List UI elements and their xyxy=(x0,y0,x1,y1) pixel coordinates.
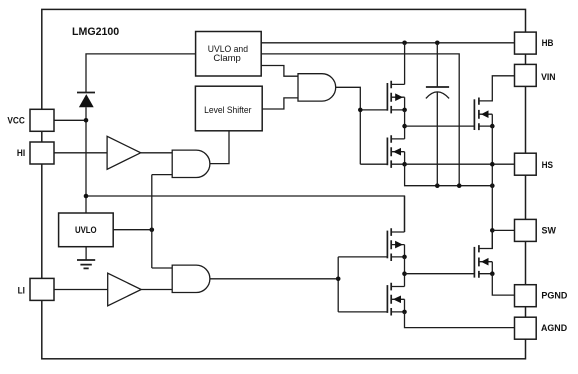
wire SW pin xyxy=(492,229,514,231)
svg-text:HB: HB xyxy=(542,38,554,49)
pin VCC xyxy=(7,109,54,131)
node VCC-diode junction xyxy=(84,118,89,123)
buffer A2 (LI) xyxy=(108,273,142,306)
transistor Q4 (low-side driver NMOS) xyxy=(387,257,406,316)
transistor Q3 (low-side driver PMOS) xyxy=(387,196,406,261)
svg-text:LI: LI xyxy=(18,285,25,296)
svg-text:VCC: VCC xyxy=(7,115,25,126)
capacitor C1 bootstrap xyxy=(426,43,449,186)
wire UVLO-Clamp out1 HB rail xyxy=(261,42,514,44)
wire U2 output to Level Shifter xyxy=(210,131,229,164)
svg-text:HI: HI xyxy=(17,148,25,159)
wire buffer A1 to AND U2 xyxy=(141,152,173,154)
label LMG2100 xyxy=(72,26,119,38)
wire buffer A2 to AND U4 xyxy=(141,289,172,291)
node low driver gate branch xyxy=(336,277,341,282)
transistor Q6 (low-side GaN FET) xyxy=(474,230,494,277)
node rail clamp bottom xyxy=(457,183,462,188)
wire UVLO-Clamp out2 clamp to HS xyxy=(261,54,459,186)
wire U4 output to low driver gates xyxy=(210,257,388,312)
wire UVLO-Clamp out3 to AND U3 xyxy=(261,66,298,77)
wire HI pin to buffer xyxy=(54,152,107,154)
svg-text:SW: SW xyxy=(542,225,556,236)
svg-text:VIN: VIN xyxy=(541,72,556,83)
and-gate U2 (HI path) xyxy=(172,150,210,177)
wire Q5 source to SW xyxy=(491,126,493,248)
svg-text:AGND: AGND xyxy=(541,323,567,334)
transistor Q5 (high-side GaN FET) xyxy=(474,76,514,130)
wire VCC rail to low-side driver y=197 xyxy=(86,196,405,232)
wire HS line xyxy=(405,163,515,165)
wire Level Shifter output to AND U3 xyxy=(262,98,298,109)
svg-text:HS: HS xyxy=(542,160,553,171)
wire LI pin to buffer xyxy=(54,289,108,291)
pin PGND xyxy=(515,285,568,307)
svg-text:Level Shifter: Level Shifter xyxy=(204,105,251,115)
pin HB xyxy=(515,32,554,54)
chip boundary xyxy=(42,9,526,358)
node rail HS vertical xyxy=(490,183,495,188)
wire VCC vertical rail x=86 xyxy=(86,54,196,213)
wire VCC pin to diode node xyxy=(54,119,86,121)
node UVLO output junction xyxy=(150,228,155,233)
wire HS branch down to rail xyxy=(405,164,493,186)
block UVLO xyxy=(59,213,114,247)
pin AGND xyxy=(515,317,568,339)
ground under UVLO xyxy=(77,247,95,269)
wire low driver mid to Q6 gate xyxy=(405,273,475,275)
node Q5 source HS line xyxy=(490,162,495,167)
node SW junction xyxy=(490,228,495,233)
svg-text:UVLO: UVLO xyxy=(75,225,97,235)
block UVLO and Clamp xyxy=(196,32,262,77)
transistor Q1 (high-side driver PMOS) xyxy=(387,43,407,114)
node HB rail / Q1 drain xyxy=(402,41,407,46)
svg-text:LMG2100: LMG2100 xyxy=(72,26,119,38)
and-gate U4 (low-side) xyxy=(172,265,210,292)
node VCC rail junction xyxy=(84,194,89,199)
block Level Shifter xyxy=(195,86,262,131)
transistor Q2 (high-side driver NMOS) xyxy=(387,110,407,168)
pin SW xyxy=(515,219,556,241)
wire Q6 source to PGND xyxy=(492,274,514,295)
buffer A1 (HI) xyxy=(107,136,141,169)
wire UVLO output xyxy=(113,229,152,231)
and-gate U3 (high-side) xyxy=(298,74,336,101)
pin LI xyxy=(18,278,54,300)
wire UVLO to AND gates vertical x=152 xyxy=(152,175,172,268)
wire U3 output to driver gates xyxy=(336,87,388,164)
pin HI xyxy=(17,142,54,164)
node driver gate branch xyxy=(358,108,363,113)
diode D1 bootstrap xyxy=(77,93,95,108)
wire Q4 source to AGND xyxy=(405,312,515,328)
node HB rail / C1 top xyxy=(435,41,440,46)
wire driver mid to Q5 gate xyxy=(405,125,475,127)
pin VIN xyxy=(515,64,556,86)
node rail capacitor bottom xyxy=(435,183,440,188)
svg-text:PGND: PGND xyxy=(541,291,567,302)
pin HS xyxy=(515,153,554,175)
svg-text:Clamp: Clamp xyxy=(213,53,240,63)
